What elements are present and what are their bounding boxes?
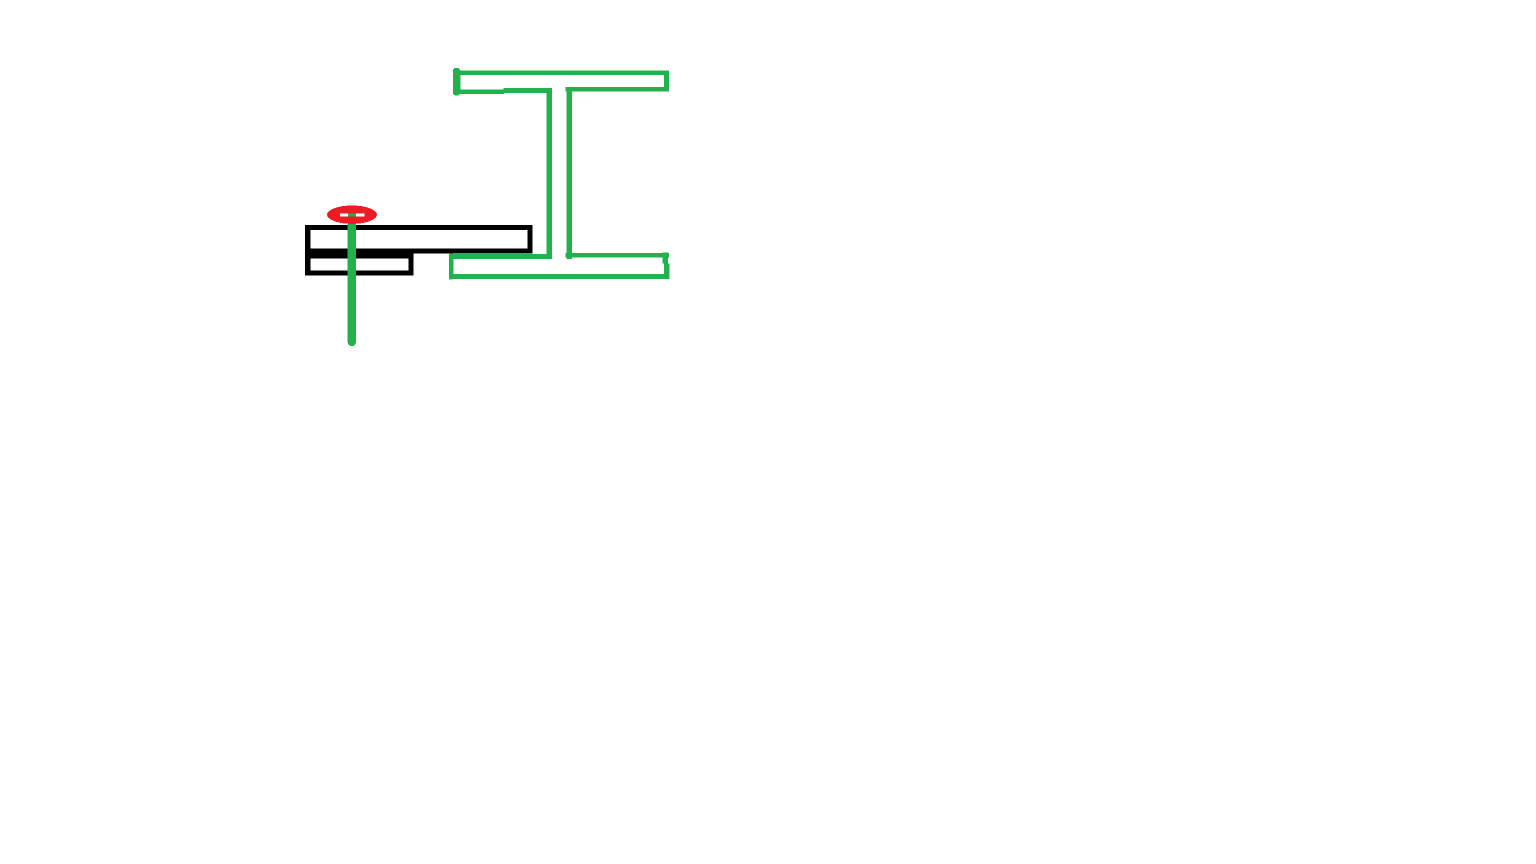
black upper plate rectangle <box>308 228 530 251</box>
I-beam top flange bottom edge left segment A <box>453 90 504 94</box>
I-beam bottom flange right edge lower part <box>664 264 669 279</box>
green pin shank rounded tip <box>348 338 356 346</box>
I-beam bottom flange right edge upper part <box>663 252 668 263</box>
I-beam top flange right edge <box>664 71 669 92</box>
red pin head ellipse <box>327 206 377 224</box>
I-beam top flange bottom edge right segment <box>566 87 670 92</box>
I-beam bottom flange top edge right segment <box>566 253 670 257</box>
I-beam top flange bottom edge left segment B <box>504 88 553 93</box>
I-beam web right line <box>566 87 572 259</box>
I-beam top flange top edge <box>453 71 669 76</box>
I-beam web left line <box>547 89 553 259</box>
I-beam top flange left edge <box>453 68 460 96</box>
white slot in pin head <box>340 213 364 216</box>
black lower plate rectangle <box>308 256 411 273</box>
green pin shank <box>348 224 356 342</box>
green slot centre piece <box>348 213 356 216</box>
I-beam bottom flange bottom edge <box>449 274 669 279</box>
I-beam bottom flange left edge <box>449 254 454 280</box>
I-beam bottom flange top edge left segment <box>449 254 552 259</box>
